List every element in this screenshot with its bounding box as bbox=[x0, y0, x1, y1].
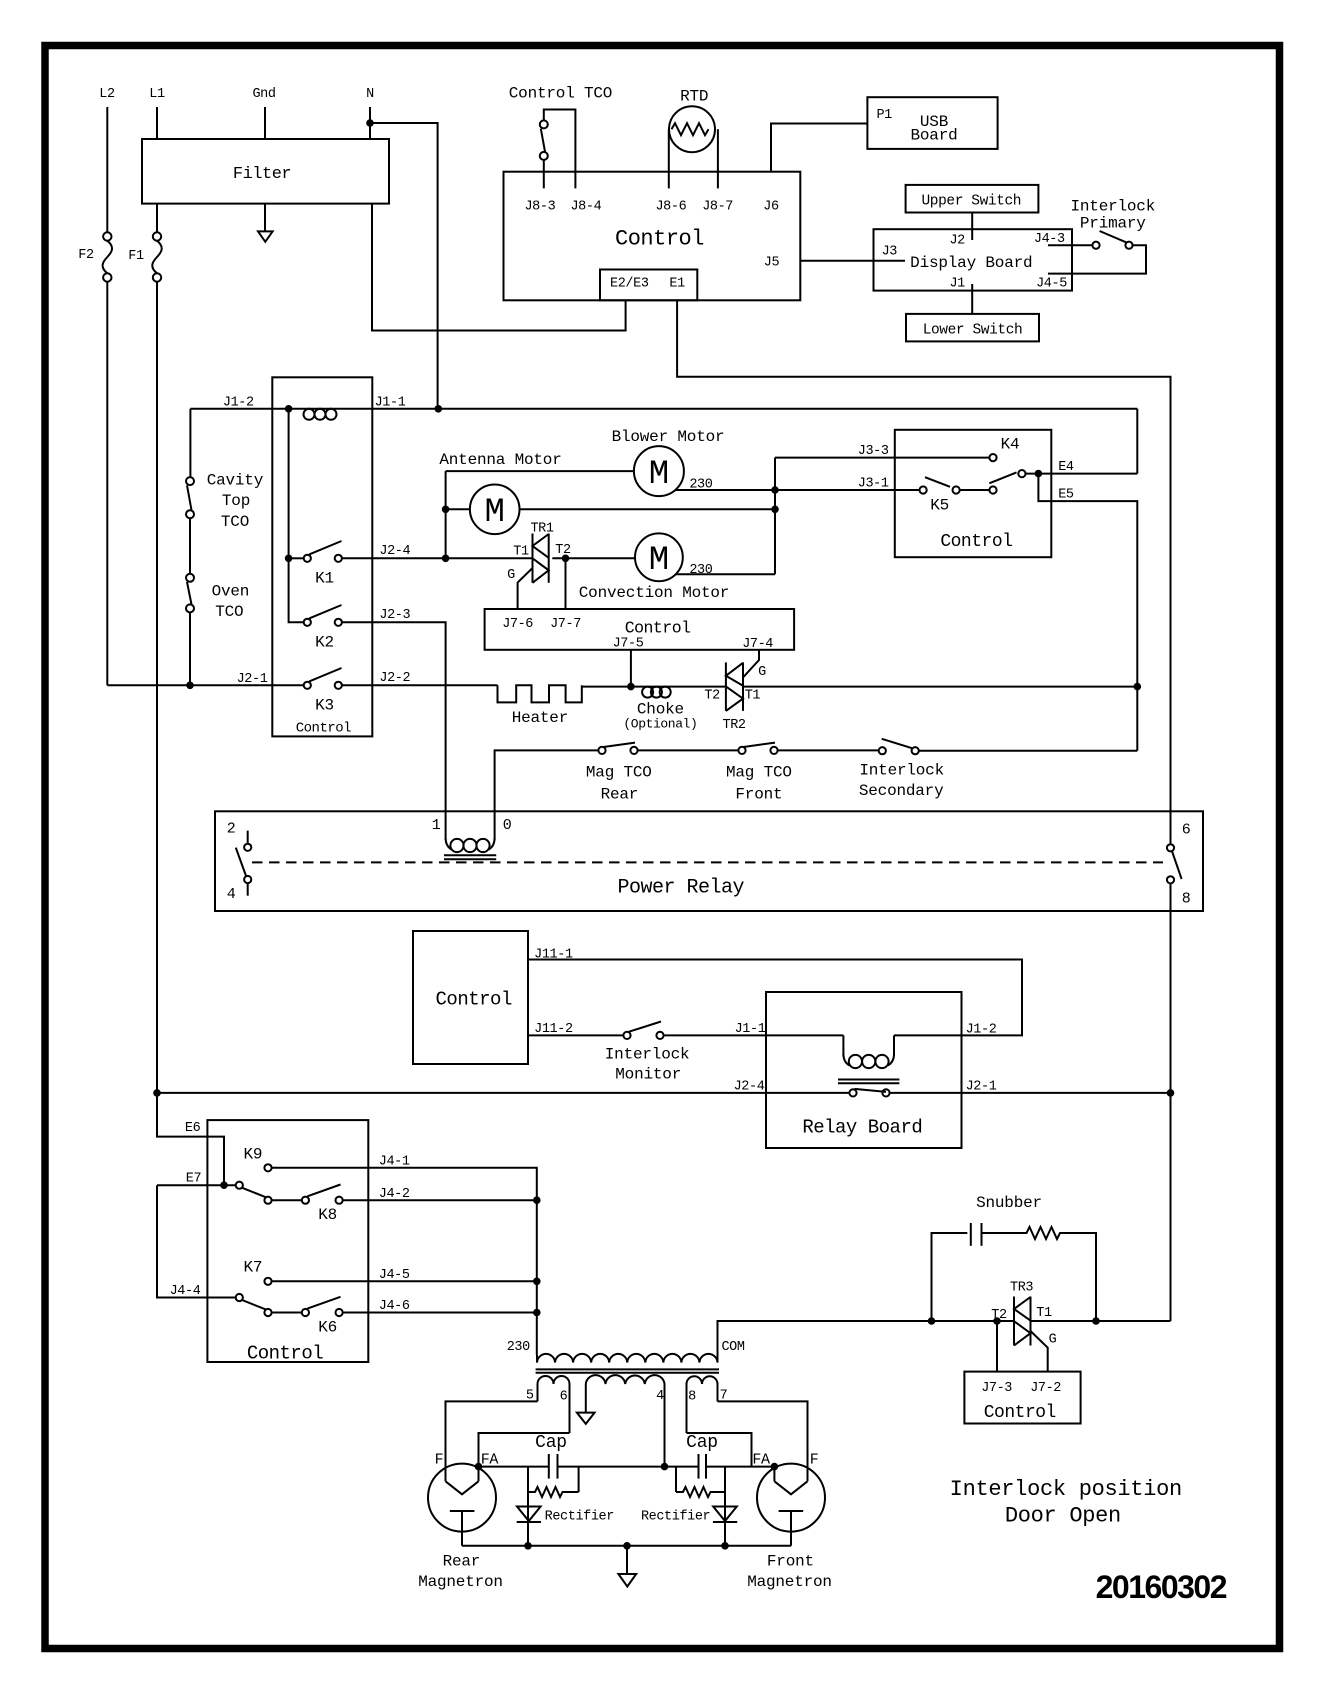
svg-text:Display Board: Display Board bbox=[910, 254, 1032, 272]
svg-text:F1: F1 bbox=[128, 249, 144, 264]
pin J5 bbox=[764, 256, 780, 271]
svg-text:J7-5: J7-5 bbox=[613, 637, 644, 652]
tube Rear Magnetron bbox=[418, 1452, 503, 1591]
switch Mag TCO Rear bbox=[586, 743, 652, 804]
wire E7 bbox=[157, 1184, 236, 1186]
svg-text:J8-4: J8-4 bbox=[570, 200, 601, 215]
wire filter ground stub bbox=[264, 204, 266, 232]
pole contact E4 bbox=[1018, 470, 1025, 477]
relay coil (relay board) bbox=[838, 1035, 899, 1083]
svg-text:Interlock position: Interlock position bbox=[950, 1477, 1182, 1502]
pin E1 bbox=[669, 277, 685, 292]
relay box Power Relay bbox=[215, 811, 1203, 911]
wire J3-3 bbox=[775, 457, 989, 459]
relay contact K2 bbox=[304, 605, 342, 652]
svg-text:Control: Control bbox=[625, 619, 691, 638]
diode Rectifier (rear) bbox=[517, 1507, 614, 1525]
svg-text:Blower Motor: Blower Motor bbox=[612, 428, 725, 446]
fuse F1 bbox=[128, 232, 161, 281]
capacitor Cap (rear) bbox=[535, 1433, 567, 1479]
wire J4-5 bbox=[272, 1280, 537, 1282]
svg-text:Cavity: Cavity bbox=[207, 472, 264, 490]
relay contact K7 bbox=[243, 1259, 271, 1285]
pin J8-6 bbox=[655, 200, 686, 215]
svg-text:E7: E7 bbox=[186, 1172, 202, 1187]
svg-text:Magnetron: Magnetron bbox=[747, 1573, 832, 1591]
svg-text:Cap: Cap bbox=[535, 1433, 567, 1453]
svg-text:J8-7: J8-7 bbox=[702, 200, 733, 215]
wire J4-6 bbox=[343, 1312, 537, 1314]
resistor RTD bbox=[669, 87, 718, 188]
triac TR2 bbox=[704, 650, 766, 733]
wire E4 bbox=[1026, 473, 1138, 475]
svg-text:J8-3: J8-3 bbox=[524, 200, 555, 215]
junction rear diode bbox=[524, 1542, 532, 1550]
control box K4/K5 bbox=[895, 430, 1052, 557]
svg-text:Control: Control bbox=[984, 1403, 1056, 1423]
upper switch box bbox=[906, 185, 1039, 213]
svg-text:G: G bbox=[1049, 1333, 1057, 1348]
lower switch box bbox=[906, 314, 1039, 342]
svg-text:K2: K2 bbox=[315, 634, 334, 652]
node L1 bbox=[149, 87, 165, 102]
svg-text:J11-1: J11-1 bbox=[534, 947, 573, 962]
svg-text:Interlock: Interlock bbox=[859, 762, 944, 780]
svg-text:Interlock: Interlock bbox=[1070, 198, 1155, 216]
svg-text:J6: J6 bbox=[763, 200, 779, 215]
wire 7 to front F bbox=[718, 1401, 808, 1481]
svg-text:Monitor: Monitor bbox=[615, 1066, 681, 1084]
wire cathode bus bbox=[462, 1545, 791, 1547]
junction E5/heater bbox=[1134, 683, 1142, 691]
pin E2/E3 bbox=[610, 277, 649, 292]
relay contact K4 bbox=[989, 436, 1019, 462]
svg-text:E4: E4 bbox=[1058, 460, 1074, 475]
svg-text:6: 6 bbox=[560, 1390, 568, 1405]
wire between mag tcos bbox=[638, 749, 739, 751]
svg-text:Rear: Rear bbox=[443, 1553, 481, 1571]
fuse F2 bbox=[78, 232, 112, 281]
svg-text:Front: Front bbox=[735, 786, 782, 804]
wire FA bus front bbox=[706, 1466, 774, 1468]
svg-text:F: F bbox=[435, 1452, 444, 1469]
svg-text:Gnd: Gnd bbox=[252, 87, 275, 102]
snubber network bbox=[932, 1194, 1097, 1321]
wire to interlock secondary bbox=[778, 749, 879, 751]
capacitor Cap (front) bbox=[686, 1433, 718, 1479]
wire J5 to display board bbox=[800, 260, 905, 262]
resistor Heater bbox=[498, 685, 582, 727]
blade J4-4 pole bbox=[242, 1300, 266, 1310]
relay contact K3 bbox=[304, 668, 342, 715]
svg-text:Board: Board bbox=[910, 127, 957, 145]
motor M3 convection bbox=[552, 533, 775, 602]
svg-text:J1-1: J1-1 bbox=[735, 1022, 766, 1037]
svg-text:J7-2: J7-2 bbox=[1030, 1381, 1061, 1396]
transformer T1 primary 230 bbox=[507, 1340, 745, 1373]
ground (filter) bbox=[258, 231, 273, 241]
svg-text:Mag TCO: Mag TCO bbox=[586, 764, 652, 782]
wire 8 to front FA bbox=[687, 1433, 752, 1467]
junction rear FA bbox=[475, 1463, 483, 1471]
svg-text:L2: L2 bbox=[99, 87, 115, 102]
wire FA bus mid bbox=[558, 1466, 699, 1468]
junction E4/E5 bbox=[1035, 470, 1043, 478]
pole contact J4-4 bbox=[236, 1294, 243, 1301]
junction J7-5 bbox=[627, 683, 635, 691]
relay contact K8 bbox=[264, 1185, 342, 1225]
junction N branch bbox=[366, 119, 374, 127]
junction K1 bbox=[285, 555, 293, 563]
triac TR1 bbox=[507, 522, 571, 610]
wire 6 to rear FA bbox=[479, 1433, 570, 1467]
junction snubber right bbox=[1092, 1317, 1100, 1325]
display board bbox=[874, 229, 1073, 290]
svg-text:Antenna Motor: Antenna Motor bbox=[439, 451, 561, 469]
wire TR2 to E5 line bbox=[743, 686, 1137, 688]
transformer T1 center winding 4 bbox=[586, 1375, 665, 1467]
wire J1-2 bbox=[190, 408, 303, 410]
svg-text:K3: K3 bbox=[315, 697, 334, 715]
relay contact K5 bbox=[920, 472, 1017, 514]
junction T2 branch bbox=[562, 555, 570, 563]
svg-text:G: G bbox=[758, 665, 766, 680]
svg-text:J7-6: J7-6 bbox=[502, 617, 533, 632]
wire J2-4 long bbox=[157, 1092, 849, 1094]
junction J2-1 / E1 line bbox=[1167, 1089, 1175, 1097]
svg-text:TR1: TR1 bbox=[530, 522, 553, 537]
pole contact E7 bbox=[236, 1182, 243, 1189]
wire T2 to J7-7 bbox=[565, 558, 567, 609]
svg-text:Control: Control bbox=[436, 989, 512, 1011]
junction TCO line bbox=[186, 682, 194, 690]
svg-text:K9: K9 bbox=[243, 1146, 262, 1164]
svg-text:G: G bbox=[507, 568, 515, 583]
pin J6 bbox=[763, 200, 779, 215]
svg-text:K4: K4 bbox=[1001, 436, 1020, 454]
wire interlock sec to E5 line bbox=[919, 750, 1138, 752]
wire E1 line lower bbox=[1170, 883, 1172, 1321]
junction L1 / J2-4 wire bbox=[153, 1089, 161, 1097]
wire N bbox=[369, 107, 371, 139]
junction winding4/FA bbox=[661, 1463, 669, 1471]
wire J4-2 bbox=[343, 1199, 537, 1201]
wire E2/E3 none, E1 stub bbox=[677, 300, 1170, 844]
svg-text:Control: Control bbox=[940, 532, 1012, 552]
wire L2 lower bbox=[106, 282, 108, 686]
svg-text:Lower Switch: Lower Switch bbox=[923, 323, 1023, 339]
switch Mag TCO Front bbox=[726, 743, 792, 804]
svg-text:2: 2 bbox=[227, 821, 236, 838]
svg-text:TR2: TR2 bbox=[723, 718, 746, 733]
note 20160302 bbox=[1096, 1569, 1227, 1605]
svg-text:TR3: TR3 bbox=[1010, 1281, 1033, 1296]
wire J11-2 bbox=[528, 1034, 623, 1036]
svg-text:Convection Motor: Convection Motor bbox=[579, 584, 729, 602]
svg-text:Heater: Heater bbox=[512, 709, 568, 727]
svg-text:Mag TCO: Mag TCO bbox=[726, 764, 792, 782]
wire J2 stub bbox=[971, 213, 973, 241]
wire J1-1 bbox=[303, 408, 1137, 410]
svg-text:J2-1: J2-1 bbox=[237, 672, 268, 687]
svg-text:J2-4: J2-4 bbox=[734, 1080, 765, 1095]
USB board bbox=[867, 97, 997, 149]
svg-text:P1: P1 bbox=[876, 108, 892, 123]
wire J2-2 to heater bbox=[342, 684, 498, 686]
pin 6 bbox=[1167, 822, 1191, 852]
triac TR3 bbox=[991, 1281, 1056, 1372]
svg-text:T1: T1 bbox=[1036, 1306, 1052, 1321]
wire TR3 run bbox=[928, 1320, 1014, 1322]
svg-text:Control: Control bbox=[247, 1343, 323, 1365]
pin 2 bbox=[227, 821, 252, 851]
wire J4-1 bbox=[272, 1168, 537, 1355]
svg-text:F2: F2 bbox=[78, 248, 94, 263]
node L2 bbox=[99, 87, 115, 102]
diode Rectifier (front) bbox=[641, 1507, 737, 1525]
svg-text:Power Relay: Power Relay bbox=[618, 877, 745, 900]
svg-text:RTD: RTD bbox=[680, 87, 708, 105]
svg-text:Filter: Filter bbox=[233, 165, 291, 184]
svg-text:Front: Front bbox=[767, 1553, 814, 1571]
wire antenna/J2-4 vertical bbox=[445, 471, 447, 558]
svg-text:K6: K6 bbox=[318, 1319, 337, 1337]
svg-text:J7-4: J7-4 bbox=[742, 637, 773, 652]
svg-text:Control: Control bbox=[296, 721, 351, 737]
svg-text:8: 8 bbox=[688, 1390, 696, 1405]
interlock primary switch bbox=[1048, 198, 1155, 274]
wire E7 down to J4-4 bbox=[157, 1185, 236, 1297]
wire Gnd bbox=[264, 107, 266, 139]
svg-text:J3-1: J3-1 bbox=[858, 477, 889, 492]
svg-text:J1-2: J1-2 bbox=[223, 395, 254, 410]
pin J8-4 bbox=[570, 200, 601, 215]
wire J6 to USB bbox=[771, 124, 867, 172]
wire L1 to E6 bbox=[157, 1093, 224, 1185]
svg-text:F: F bbox=[810, 1452, 819, 1469]
wire J3-1 label bbox=[858, 477, 889, 492]
wire heater to TR2 bbox=[582, 686, 726, 688]
svg-text:E1: E1 bbox=[669, 277, 685, 292]
ground (transformer center tap) bbox=[577, 1413, 595, 1424]
wire vertical x775 bbox=[774, 458, 776, 575]
svg-text:Top: Top bbox=[222, 492, 250, 510]
junction blower/J3-1 bbox=[771, 486, 779, 494]
box E2/E3 E1 pins bbox=[600, 270, 697, 301]
wire E5 bbox=[1038, 474, 1137, 751]
control box K1-K3 bbox=[272, 377, 372, 736]
wire COM up to TR3 run bbox=[718, 1321, 929, 1355]
svg-text:Oven: Oven bbox=[212, 583, 250, 601]
pin J8-3 bbox=[524, 200, 555, 215]
svg-text:M: M bbox=[649, 456, 669, 494]
switch Cavity Top TCO bbox=[186, 409, 264, 574]
svg-text:20160302: 20160302 bbox=[1096, 1569, 1227, 1605]
dashed mechanical link bbox=[252, 861, 1163, 863]
junction T2/J7-3 bbox=[993, 1317, 1001, 1325]
control box K6-K9 bbox=[207, 1120, 368, 1362]
svg-text:E6: E6 bbox=[185, 1121, 201, 1136]
note Interlock position bbox=[950, 1477, 1182, 1529]
svg-text:J11-2: J11-2 bbox=[534, 1022, 573, 1037]
svg-text:Control TCO: Control TCO bbox=[509, 85, 612, 103]
node Gnd bbox=[252, 87, 275, 102]
svg-text:Upper Switch: Upper Switch bbox=[921, 194, 1021, 210]
junction antenna branch bbox=[771, 506, 779, 514]
svg-text:J7-7: J7-7 bbox=[550, 617, 581, 632]
svg-text:K1: K1 bbox=[315, 570, 334, 588]
svg-text:Relay Board: Relay Board bbox=[802, 1117, 922, 1139]
junction E6 stub bbox=[220, 1181, 228, 1189]
svg-text:J1-1: J1-1 bbox=[375, 395, 406, 410]
control box TR3 bbox=[964, 1372, 1080, 1424]
wire J7-3 stub bbox=[996, 1321, 998, 1372]
svg-text:1: 1 bbox=[432, 817, 441, 834]
svg-text:Rear: Rear bbox=[601, 786, 639, 804]
svg-text:J4-1: J4-1 bbox=[379, 1155, 410, 1170]
ground (cathode) bbox=[618, 1574, 636, 1587]
svg-text:0: 0 bbox=[503, 817, 512, 834]
svg-text:J2-4: J2-4 bbox=[379, 544, 410, 559]
wire J2-1 bbox=[890, 1092, 1171, 1094]
tube Front Magnetron bbox=[747, 1452, 832, 1591]
svg-text:Control: Control bbox=[615, 227, 704, 252]
svg-text:J5: J5 bbox=[764, 256, 780, 271]
svg-text:Door Open: Door Open bbox=[1005, 1504, 1121, 1529]
motor M2 blower bbox=[446, 428, 920, 496]
wire J1-1 down to E4 bbox=[1136, 409, 1138, 474]
junction front FA bbox=[771, 1463, 779, 1471]
svg-text:TCO: TCO bbox=[221, 513, 249, 531]
pin J1-2 relay board bbox=[966, 1022, 997, 1037]
svg-text:L1: L1 bbox=[149, 87, 165, 102]
pin 8 bbox=[1167, 876, 1191, 907]
junction ground stub bbox=[623, 1542, 631, 1550]
svg-text:Magnetron: Magnetron bbox=[418, 1573, 503, 1591]
svg-text:8: 8 bbox=[1182, 891, 1191, 908]
junction J4-2 bbox=[533, 1196, 541, 1204]
relay blade 6-8 bbox=[1172, 851, 1182, 879]
junction front diode bbox=[721, 1542, 729, 1550]
svg-text:J4-2: J4-2 bbox=[379, 1187, 410, 1202]
resistor bleeder (front) bbox=[676, 1467, 725, 1546]
wire L1 below filter bbox=[156, 204, 158, 232]
svg-text:J1-2: J1-2 bbox=[966, 1022, 997, 1037]
svg-text:E2/E3: E2/E3 bbox=[610, 277, 649, 292]
switch Oven TCO bbox=[186, 574, 249, 686]
motor M1 antenna bbox=[439, 451, 775, 534]
wire L1 to filter bbox=[156, 107, 158, 139]
wire J2-3 to power relay coil bbox=[342, 622, 446, 840]
switch Interlock Secondary bbox=[859, 739, 944, 800]
svg-text:J4-5: J4-5 bbox=[379, 1268, 410, 1283]
svg-text:J3: J3 bbox=[882, 245, 898, 260]
wire L2 vertical bbox=[106, 107, 108, 232]
svg-text:Secondary: Secondary bbox=[859, 782, 944, 800]
blade E7 pole bbox=[242, 1188, 266, 1198]
wire J7-5 stub bbox=[630, 650, 632, 687]
wire J11-1 bbox=[528, 960, 1022, 1036]
wire N to J1-1 bbox=[370, 123, 438, 409]
junction N on J1-1 bbox=[435, 405, 443, 413]
wire filter to E2/E3 bbox=[372, 204, 626, 331]
junction snubber left bbox=[928, 1317, 936, 1325]
svg-text:COM: COM bbox=[721, 1340, 744, 1355]
svg-text:4: 4 bbox=[227, 886, 236, 903]
resistor bleeder (rear) bbox=[528, 1467, 579, 1546]
svg-text:FA: FA bbox=[752, 1452, 770, 1469]
svg-text:J2-1: J2-1 bbox=[966, 1080, 997, 1095]
wire J2-4 bbox=[342, 557, 532, 559]
wire J1 stub bbox=[971, 284, 973, 314]
svg-text:K7: K7 bbox=[243, 1259, 262, 1277]
svg-text:J8-6: J8-6 bbox=[655, 200, 686, 215]
inductor on J1-1 wire bbox=[304, 409, 337, 420]
inductor Choke bbox=[623, 687, 697, 732]
wire FA bus rear bbox=[479, 1466, 549, 1468]
svg-text:Snubber: Snubber bbox=[976, 1194, 1042, 1212]
svg-text:M: M bbox=[649, 542, 669, 580]
control box J11 bbox=[413, 931, 528, 1064]
wire J2-1 bbox=[107, 684, 303, 686]
wire 5 to rear F bbox=[446, 1401, 538, 1481]
svg-text:J1: J1 bbox=[949, 277, 965, 292]
svg-text:230: 230 bbox=[507, 1340, 530, 1355]
junction J4-6 bbox=[533, 1309, 541, 1317]
junction J4-5 bbox=[533, 1278, 541, 1286]
svg-text:J2-2: J2-2 bbox=[379, 671, 410, 686]
svg-text:J2-3: J2-3 bbox=[379, 608, 410, 623]
wire monitor to relay board J1-1 bbox=[664, 1034, 844, 1036]
switch Interlock Monitor bbox=[605, 1022, 690, 1084]
junction J1-2 box vertical bbox=[285, 405, 293, 413]
relay contact K9 bbox=[243, 1146, 271, 1172]
control box J7 (middle) bbox=[485, 609, 794, 650]
svg-text:J3-3: J3-3 bbox=[858, 444, 889, 459]
svg-text:4: 4 bbox=[656, 1389, 664, 1404]
svg-text:(Optional): (Optional) bbox=[623, 717, 697, 732]
svg-text:T1: T1 bbox=[745, 689, 761, 704]
wire ground stub bbox=[626, 1546, 628, 1574]
svg-text:E5: E5 bbox=[1058, 488, 1074, 503]
transformer T1 filament winding 8-7 bbox=[687, 1376, 728, 1433]
svg-text:N: N bbox=[366, 87, 374, 102]
svg-text:Cap: Cap bbox=[686, 1433, 718, 1453]
relay contact K1 bbox=[304, 541, 342, 588]
wire L1 long vertical bbox=[156, 282, 158, 1137]
svg-text:J4-4: J4-4 bbox=[170, 1284, 201, 1299]
transformer T1 filament winding 5-6 bbox=[526, 1376, 570, 1433]
filter box bbox=[142, 139, 389, 204]
relay coil (power relay) bbox=[432, 817, 512, 859]
svg-text:J7-3: J7-3 bbox=[981, 1381, 1012, 1396]
relay contact K6 bbox=[264, 1297, 342, 1337]
svg-text:J4-6: J4-6 bbox=[379, 1299, 410, 1314]
relay blade 2-4 bbox=[236, 848, 246, 876]
node N bbox=[366, 87, 374, 102]
pin 4 bbox=[227, 876, 252, 903]
svg-text:K8: K8 bbox=[318, 1206, 337, 1224]
svg-text:6: 6 bbox=[1182, 822, 1191, 839]
control box U1 bbox=[504, 172, 801, 301]
svg-text:T1: T1 bbox=[513, 545, 529, 560]
svg-text:Interlock: Interlock bbox=[605, 1045, 690, 1063]
svg-text:J2: J2 bbox=[949, 234, 965, 249]
svg-text:Primary: Primary bbox=[1080, 215, 1146, 233]
wire mag tco run bbox=[495, 750, 599, 840]
svg-text:Rectifier: Rectifier bbox=[641, 1510, 710, 1525]
svg-text:T2: T2 bbox=[704, 689, 720, 704]
